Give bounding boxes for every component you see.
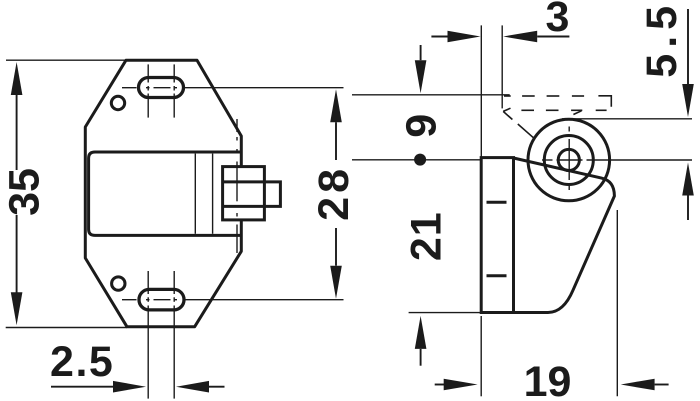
svg-text:5.5: 5.5: [638, 0, 686, 78]
svg-text:2.5: 2.5: [50, 338, 114, 386]
svg-text:21: 21: [402, 211, 450, 261]
svg-text:35: 35: [0, 168, 48, 216]
svg-text:28: 28: [310, 165, 358, 221]
svg-text:19: 19: [524, 358, 572, 401]
svg-text:3: 3: [545, 0, 569, 41]
svg-text:9: 9: [398, 114, 446, 138]
